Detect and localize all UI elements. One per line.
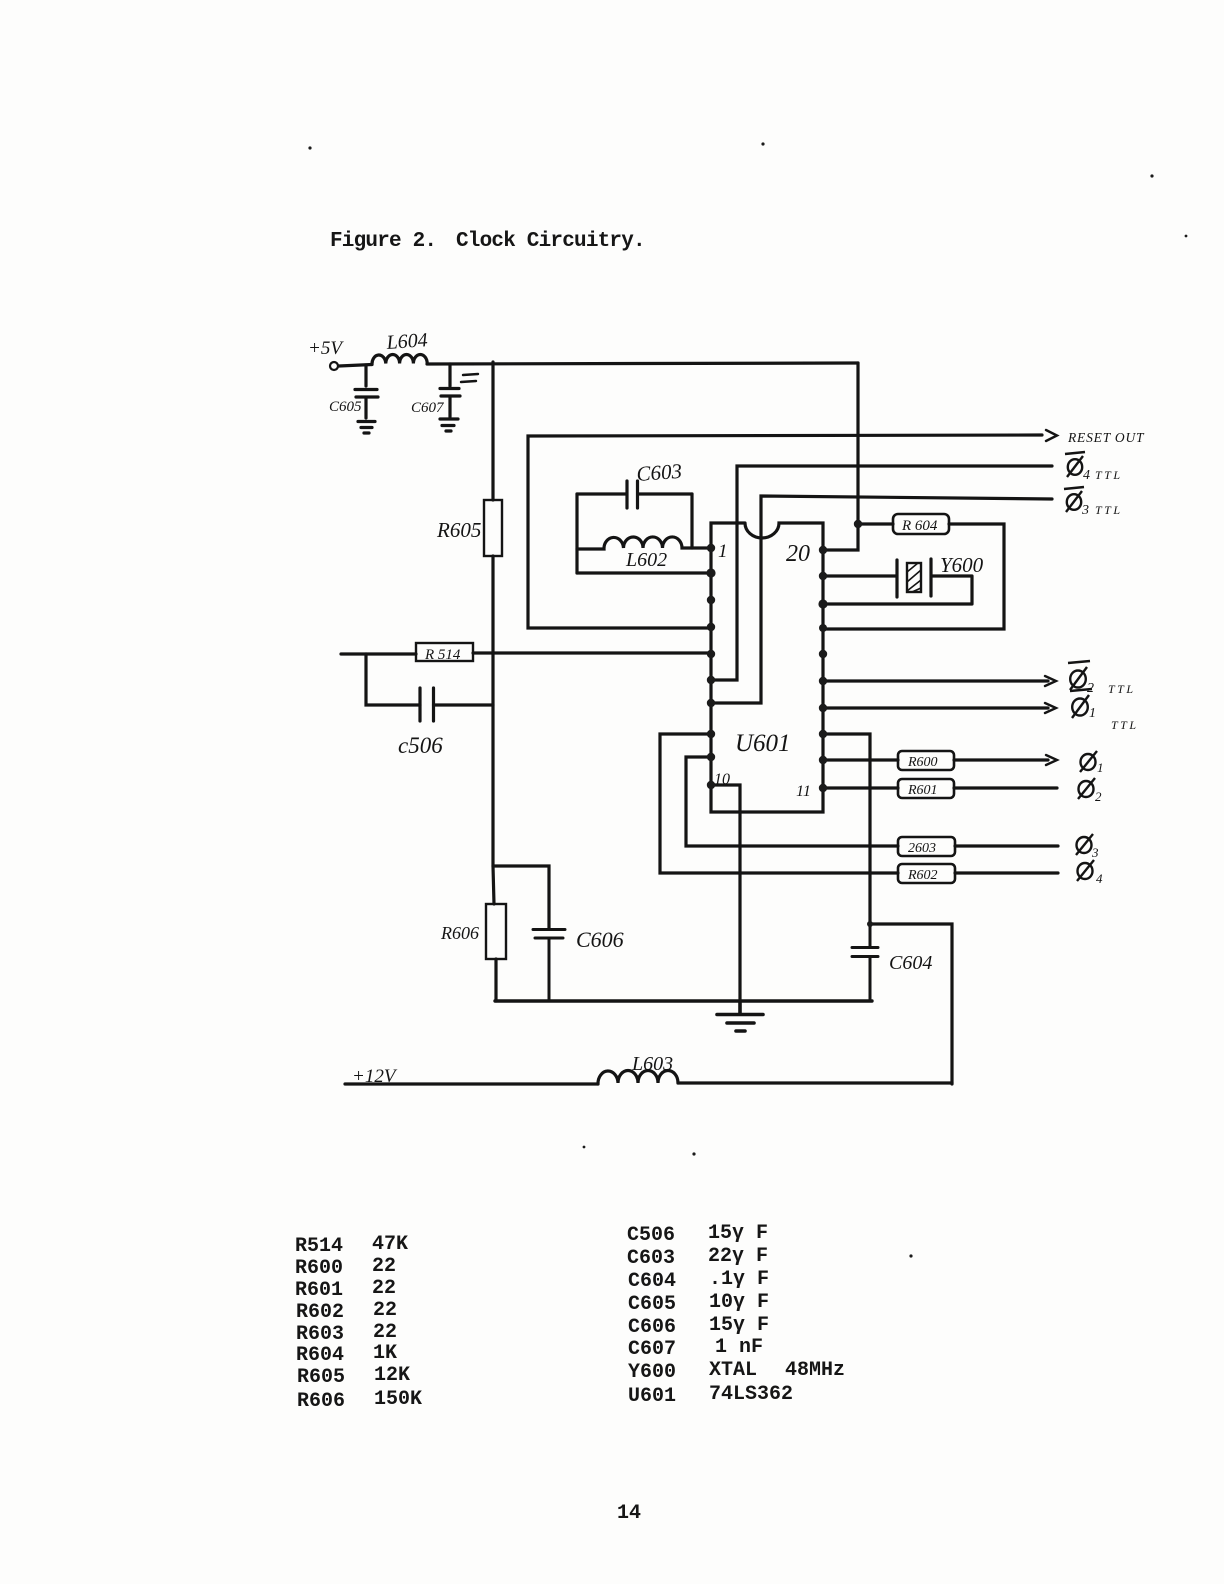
- capacitor C506: [420, 688, 434, 721]
- svg-text:R 604: R 604: [901, 518, 938, 534]
- svg-text:R514: R514: [295, 1235, 343, 1258]
- svg-text:15γ F: 15γ F: [708, 1222, 768, 1245]
- node phi4 TTL label: [1065, 452, 1123, 483]
- wire +12V to riser: [678, 1081, 952, 1084]
- svg-text:U601: U601: [628, 1385, 676, 1408]
- svg-text:22: 22: [373, 1321, 397, 1344]
- svg-text:RESET OUT: RESET OUT: [1067, 430, 1145, 445]
- svg-text:C603: C603: [627, 1247, 675, 1270]
- svg-text:3: 3: [1091, 845, 1099, 860]
- svg-text:Y600: Y600: [940, 553, 984, 577]
- node phi2 TTL label: [1068, 661, 1136, 696]
- svg-text:R602: R602: [907, 868, 938, 883]
- wire loop pin to R603: [686, 757, 1058, 846]
- resistor R601: [898, 779, 954, 798]
- svg-text:L603: L603: [631, 1053, 673, 1075]
- wire +12V rail: [345, 1082, 598, 1085]
- node phi1 TTL label: [1070, 689, 1139, 732]
- inductor L604: [372, 355, 427, 365]
- svg-text:Y600: Y600: [628, 1361, 676, 1384]
- wire R605 bottom vertical: [493, 556, 494, 904]
- resistor R602: [898, 864, 955, 883]
- svg-text:1K: 1K: [373, 1342, 397, 1365]
- junction +5V/R604: [854, 520, 862, 528]
- wire R514 left lead: [341, 652, 416, 655]
- wire pin 10 to ground: [711, 785, 740, 1001]
- svg-text:3: 3: [1081, 503, 1089, 518]
- svg-text:R600: R600: [907, 755, 938, 770]
- svg-text:C506: C506: [627, 1224, 675, 1247]
- svg-text:C606: C606: [576, 927, 624, 952]
- inductor L602: [577, 537, 711, 549]
- svg-text:C606: C606: [628, 1316, 676, 1339]
- wire R514 to pin: [473, 651, 711, 654]
- svg-text:11: 11: [796, 783, 811, 800]
- crystal Y600 body: [907, 563, 921, 592]
- wire branch to C606: [493, 866, 549, 929]
- wire R604 net from +5V: [823, 524, 1004, 629]
- wire phi4TTL net: [711, 466, 1052, 680]
- svg-text:R605: R605: [436, 518, 481, 542]
- wire phi2TTL out: [823, 679, 1048, 682]
- wire loop pin to R602: [660, 734, 1058, 873]
- svg-text:22: 22: [372, 1277, 396, 1300]
- svg-text:U601: U601: [735, 730, 791, 757]
- pin dots left edge U601: [707, 544, 715, 552]
- svg-text:C604: C604: [889, 952, 932, 974]
- svg-text:20: 20: [786, 541, 810, 567]
- svg-text:+5V: +5V: [308, 338, 344, 359]
- ground main: [717, 1001, 763, 1031]
- resistor R600: [898, 751, 954, 770]
- wire RESET loop: [528, 435, 1042, 628]
- svg-text:TTL: TTL: [1108, 682, 1136, 696]
- svg-text:R601: R601: [295, 1279, 343, 1302]
- svg-text:TTL: TTL: [1095, 503, 1123, 517]
- wire +5V rail to right: [427, 363, 858, 364]
- wire C604 top to +12V riser: [870, 924, 952, 1084]
- svg-text:48MHz: 48MHz: [785, 1359, 845, 1382]
- wire +5V lead: [339, 365, 372, 367]
- svg-text:C605: C605: [628, 1293, 676, 1316]
- svg-text:4: 4: [1083, 468, 1090, 483]
- crystal Y600: [823, 559, 972, 604]
- svg-text:C604: C604: [628, 1270, 676, 1293]
- resistor R603: [898, 837, 955, 856]
- svg-text:14: 14: [617, 1502, 641, 1525]
- arrowhead phi1: [1046, 755, 1057, 765]
- svg-text:R605: R605: [297, 1366, 345, 1389]
- svg-text:15γ F: 15γ F: [709, 1314, 769, 1337]
- svg-text:10γ F: 10γ F: [709, 1291, 769, 1314]
- ground below C605: [358, 422, 375, 434]
- svg-text:1: 1: [718, 541, 728, 562]
- svg-text:1: 1: [1097, 760, 1104, 775]
- node phi1 label: [1080, 751, 1104, 775]
- svg-text:12K: 12K: [374, 1364, 410, 1387]
- arrowhead phi1TTL: [1045, 703, 1056, 713]
- wire R606 to bottom rail: [494, 959, 497, 1001]
- wire R600 net: [823, 758, 1048, 761]
- node phi4 label: [1077, 860, 1103, 886]
- svg-text:L604: L604: [385, 329, 429, 354]
- resistor R604: [893, 514, 949, 534]
- svg-text:47K: 47K: [372, 1233, 408, 1256]
- node phi3 label: [1076, 834, 1099, 860]
- svg-text:Clock Circuitry.: Clock Circuitry.: [456, 230, 645, 253]
- svg-text:22: 22: [373, 1299, 397, 1322]
- resistor R514: [416, 643, 473, 661]
- svg-text:C603: C603: [636, 459, 683, 486]
- wire pin to C604: [823, 734, 870, 924]
- wire tank bottom to pin 2: [577, 571, 711, 574]
- ground below C607: [440, 419, 458, 431]
- paper specks: [308, 146, 311, 149]
- svg-text:R606: R606: [297, 1390, 345, 1413]
- svg-text:150K: 150K: [374, 1388, 422, 1411]
- op IC U601 outline: [711, 523, 823, 812]
- wire +5V drop to pin 20: [823, 363, 858, 550]
- svg-text:c506: c506: [398, 733, 443, 758]
- resistor R605: [484, 500, 502, 556]
- capacitor C606: [533, 930, 565, 1002]
- node phi2 label: [1078, 778, 1102, 804]
- wire R601 net pin 11: [824, 786, 1057, 789]
- svg-text:2: 2: [1095, 789, 1102, 804]
- arrowhead RESET OUT: [1046, 430, 1057, 441]
- svg-text:1: 1: [1089, 706, 1096, 721]
- svg-text:74LS362: 74LS362: [709, 1383, 793, 1406]
- svg-text:R602: R602: [296, 1301, 344, 1324]
- wire phi1TTL out: [823, 706, 1048, 709]
- svg-text:22γ F: 22γ F: [708, 1245, 768, 1268]
- svg-text:R600: R600: [295, 1257, 343, 1280]
- capacitor C605: [355, 365, 378, 418]
- junction C604 top: [867, 921, 873, 927]
- pin dots right edge U601: [819, 546, 827, 554]
- svg-text:1 nF: 1 nF: [715, 1336, 763, 1359]
- capacitor C607: [440, 364, 460, 417]
- svg-text:R 514: R 514: [424, 647, 461, 663]
- svg-text:2603: 2603: [908, 841, 936, 856]
- svg-text:L602: L602: [625, 549, 667, 571]
- capacitor C604: [852, 924, 878, 1001]
- svg-text:C605: C605: [329, 399, 362, 415]
- svg-text:.1γ F: .1γ F: [709, 1268, 769, 1291]
- node +5V terminal: [330, 362, 338, 370]
- wire C506 left drop: [366, 654, 420, 705]
- svg-text:+12V: +12V: [352, 1066, 398, 1087]
- svg-text:R601: R601: [907, 783, 938, 798]
- svg-text:10: 10: [714, 771, 730, 788]
- resistor R606: [486, 904, 506, 959]
- svg-text:TTL: TTL: [1095, 468, 1123, 482]
- svg-text:XTAL: XTAL: [709, 1359, 757, 1382]
- capacitor C603: [577, 481, 692, 508]
- wire bottom ground rail: [495, 999, 872, 1002]
- svg-text:R604: R604: [296, 1344, 344, 1367]
- wire C506 right lead: [434, 703, 494, 706]
- svg-text:Figure 2.: Figure 2.: [330, 230, 436, 253]
- svg-text:R603: R603: [296, 1323, 344, 1346]
- inductor L603: [598, 1071, 678, 1085]
- svg-text:4: 4: [1096, 871, 1103, 886]
- node phi3 TTL label: [1064, 487, 1123, 518]
- wire tank right edge: [690, 494, 693, 548]
- svg-text:C607: C607: [411, 400, 445, 416]
- wire R605 top drop: [491, 362, 494, 500]
- wire tank left edge: [575, 494, 578, 573]
- arrowhead phi2TTL: [1045, 676, 1056, 686]
- svg-text:22: 22: [372, 1255, 396, 1278]
- svg-text:TTL: TTL: [1111, 718, 1139, 732]
- svg-text:R606: R606: [440, 923, 479, 943]
- stray = mark: [461, 374, 478, 382]
- svg-text:C607: C607: [628, 1338, 676, 1361]
- wire phi3TTL net: [711, 496, 1052, 703]
